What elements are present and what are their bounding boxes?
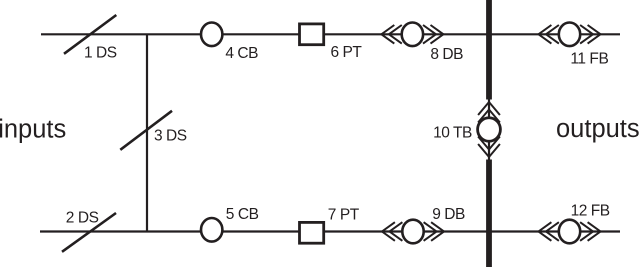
tie breaker 10 TB [433, 102, 500, 157]
disconnect switch 2 DS [62, 209, 116, 252]
svg-text:4 CB: 4 CB [225, 45, 258, 62]
wire bottom input line [40, 230, 620, 232]
circuit breaker 4 CB [201, 23, 258, 63]
svg-text:12 FB: 12 FB [571, 203, 610, 220]
svg-text:10 TB: 10 TB [433, 124, 472, 141]
potential transformer 7 PT [300, 206, 360, 243]
drawout breaker 9 DB [382, 206, 465, 243]
wire thin stub through 10 TB [488, 98, 490, 161]
disconnect switch 3 DS [120, 111, 186, 150]
svg-text:3 DS: 3 DS [154, 128, 187, 145]
feeder breaker 12 FB [539, 203, 610, 244]
svg-text:2 DS: 2 DS [66, 209, 99, 226]
svg-text:5 CB: 5 CB [226, 206, 259, 223]
svg-text:inputs: inputs [0, 115, 66, 143]
svg-text:outputs: outputs [556, 115, 640, 143]
svg-text:9 DB: 9 DB [432, 206, 465, 223]
svg-text:11 FB: 11 FB [570, 51, 608, 68]
svg-text:1 DS: 1 DS [84, 45, 117, 62]
busbar thick vertical bus top segment [486, 0, 492, 100]
feeder breaker 11 FB [539, 23, 609, 68]
disconnect switch 1 DS [64, 15, 117, 62]
svg-text:8 DB: 8 DB [430, 46, 463, 63]
drawout breaker 8 DB [381, 23, 463, 63]
circuit breaker 5 CB [201, 206, 259, 242]
busbar thick vertical bus bottom segment [486, 160, 492, 267]
wire vertical tie between rows [146, 34, 148, 231]
wire top input line [41, 33, 620, 35]
svg-text:7 PT: 7 PT [328, 206, 360, 223]
svg-text:6 PT: 6 PT [331, 44, 363, 61]
potential transformer 6 PT [300, 24, 363, 61]
